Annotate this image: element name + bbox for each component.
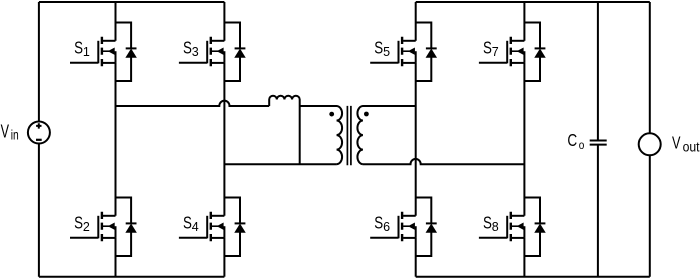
label S4 (183, 213, 199, 234)
transistor S4 body arrow and source tie (212, 223, 225, 238)
wire secondary bottom to leg4 midpoint with hop over leg3 (363, 159, 525, 164)
transformer core (347, 106, 351, 165)
transistor S1 gate lead (70, 62, 98, 64)
primary phase dot (329, 112, 334, 117)
body diode of S1 (116, 23, 137, 82)
wire capacitor top (597, 2, 599, 141)
transistor S3 gate line (206, 41, 208, 64)
body diode of S5 (416, 23, 437, 82)
svg-text:C: C (567, 130, 577, 150)
transistor S6 drain stub (403, 215, 416, 217)
transistor S3 gate lead (179, 62, 207, 64)
label S1 (74, 38, 90, 59)
transistor S2 gate line (97, 216, 99, 239)
transistor S2 body arrow and source tie (103, 223, 116, 238)
wire Vin vertical top (38, 2, 40, 122)
svg-text:in: in (11, 128, 19, 143)
body diode of S8 (524, 198, 545, 257)
wire Vout vertical bottom (649, 155, 651, 276)
transistor S8 source stub (512, 237, 525, 239)
transformer secondary winding (357, 106, 415, 164)
transistor S2 gate lead (70, 237, 98, 239)
transistor S8 gate lead (479, 237, 507, 239)
capacitor Co plates (590, 141, 607, 145)
svg-text:3: 3 (192, 45, 199, 59)
rail of leg S3/S4 upper segment (223, 2, 225, 41)
transistor S2 source stub (103, 237, 116, 239)
transistor S5 channel segments (401, 37, 403, 66)
label Vin (1, 122, 19, 143)
transistor S7 gate line (506, 41, 508, 64)
svg-text:o: o (579, 138, 585, 152)
transistor S6 gate line (398, 216, 400, 239)
label S6 (374, 213, 390, 234)
transistor S7 channel segments (510, 37, 512, 66)
body diode of S6 (416, 198, 437, 257)
wire bottom-left rail (39, 276, 225, 278)
rail of leg S5/S6 middle segment (415, 63, 417, 216)
transistor S5 source stub (403, 62, 416, 64)
transformer primary winding (300, 106, 342, 164)
transistor S7 body arrow and source tie (512, 48, 525, 63)
rail of leg S3/S4 middle segment (223, 63, 225, 216)
Vin plus sign (36, 123, 41, 128)
rail of leg S1/S2 upper segment (115, 2, 117, 41)
svg-text:4: 4 (192, 220, 199, 234)
voltage source Vout (639, 133, 661, 155)
svg-text:S: S (374, 38, 383, 58)
secondary phase dot (364, 112, 369, 117)
transistor S3 body arrow and source tie (212, 48, 225, 63)
svg-text:S: S (74, 213, 83, 233)
svg-text:S: S (74, 38, 83, 58)
svg-text:7: 7 (492, 45, 499, 59)
svg-text:6: 6 (383, 220, 390, 234)
transistor S5 body arrow and source tie (403, 48, 416, 63)
label Vout (672, 133, 700, 155)
transistor S4 drain stub (212, 215, 225, 217)
wire Vin vertical bottom (38, 144, 40, 277)
transistor S2 channel segments (101, 212, 103, 241)
transistor S3 source stub (212, 62, 225, 64)
transistor S5 drain stub (403, 40, 416, 42)
svg-text:2: 2 (83, 220, 90, 234)
svg-text:5: 5 (383, 45, 390, 59)
transistor S7 drain stub (512, 40, 525, 42)
rail of leg S7/S8 upper segment (523, 2, 525, 41)
wire Vout vertical top (649, 2, 651, 133)
label S5 (374, 38, 390, 59)
label Co (567, 130, 584, 152)
body diode of S2 (116, 198, 137, 257)
transistor S4 channel segments (210, 212, 212, 241)
transistor S6 source stub (403, 237, 416, 239)
transistor S6 body arrow and source tie (403, 223, 416, 238)
label S8 (483, 213, 499, 234)
body diode of S7 (524, 23, 545, 82)
transistor S5 gate line (398, 41, 400, 64)
voltage source Vin (28, 122, 50, 144)
svg-text:S: S (483, 213, 492, 233)
Vin minus sign (36, 139, 42, 141)
body diode of S4 (224, 198, 245, 257)
rail of leg S1/S2 middle segment (115, 63, 117, 216)
body diode of S3 (224, 23, 245, 82)
transistor S1 body arrow and source tie (103, 48, 116, 63)
svg-text:S: S (374, 213, 383, 233)
transistor S8 body arrow and source tie (512, 223, 525, 238)
transistor S1 drain stub (103, 40, 116, 42)
transistor S7 gate lead (479, 62, 507, 64)
svg-text:S: S (483, 38, 492, 58)
transistor S2 drain stub (103, 215, 116, 217)
label S7 (483, 38, 499, 59)
transistor S1 channel segments (101, 37, 103, 66)
transistor S7 source stub (512, 62, 525, 64)
transistor S8 channel segments (510, 212, 512, 241)
rail of leg S5/S6 lower segment (415, 238, 417, 277)
rail of leg S7/S8 middle segment (523, 63, 525, 216)
svg-text:out: out (683, 140, 700, 155)
svg-text:8: 8 (492, 220, 499, 234)
wire leg2 midpoint to primary winding bottom (224, 163, 336, 165)
svg-text:1: 1 (83, 45, 90, 59)
label S3 (183, 38, 199, 59)
label S2 (74, 213, 90, 234)
rail of leg S7/S8 lower segment (523, 238, 525, 277)
wire top-right rail (416, 1, 650, 3)
wire capacitor bottom (597, 145, 599, 277)
transistor S8 gate line (506, 216, 508, 239)
inductor L (series leakage inductance) (269, 96, 300, 106)
transistor S1 source stub (103, 62, 116, 64)
transistor S4 source stub (212, 237, 225, 239)
wire leg1 midpoint to inductor with hop over leg2 (116, 101, 270, 106)
transistor S3 drain stub (212, 40, 225, 42)
svg-text:S: S (183, 213, 192, 233)
rail of leg S3/S4 lower segment (223, 238, 225, 277)
svg-text:V: V (672, 133, 681, 153)
rail of leg S1/S2 lower segment (115, 238, 117, 277)
transistor S6 channel segments (401, 212, 403, 241)
rail of leg S5/S6 upper segment (415, 2, 417, 41)
transistor S4 gate lead (179, 237, 207, 239)
transistor S4 gate line (206, 216, 208, 239)
svg-text:V: V (1, 122, 9, 142)
transistor S3 channel segments (210, 37, 212, 66)
wire bottom-right rail (416, 276, 650, 278)
transistor S6 gate lead (370, 237, 398, 239)
transistor S8 drain stub (512, 215, 525, 217)
wire from Vin to top-left rail (39, 1, 225, 3)
transistor S1 gate line (97, 41, 99, 64)
svg-text:S: S (183, 38, 192, 58)
transistor S5 gate lead (370, 62, 398, 64)
